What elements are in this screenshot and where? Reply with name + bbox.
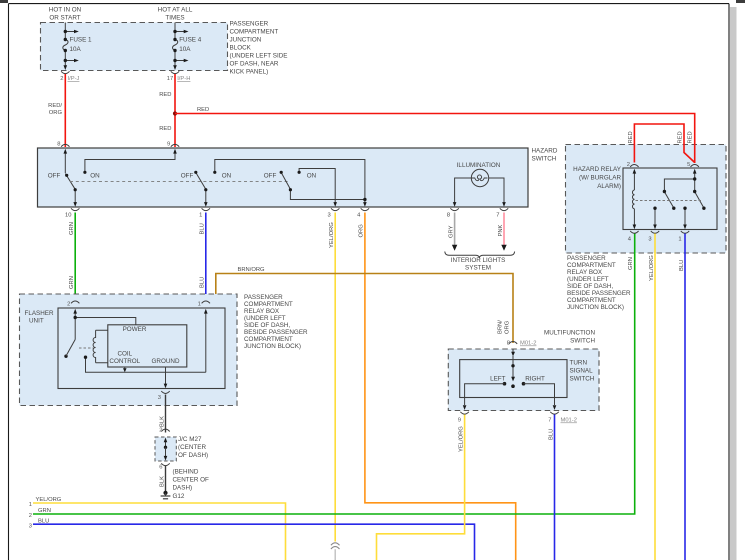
wire RED drop into relay pin5 xyxy=(694,144,696,163)
flasher unit outer dashed box xyxy=(20,294,238,406)
svg-text:8: 8 xyxy=(57,142,60,148)
svg-text:(UNDER LEFT SIDE: (UNDER LEFT SIDE xyxy=(230,53,288,60)
wire ORG hazard pin4 down right and to bottom xyxy=(365,213,516,560)
svg-text:SIGNAL: SIGNAL xyxy=(570,368,594,375)
svg-text:CENTER OF: CENTER OF xyxy=(173,477,210,484)
svg-text:BLK: BLK xyxy=(159,476,165,487)
relay contact wiring from pin 5 xyxy=(655,174,704,226)
multifunction switch: connector pin 8 M01-2 xyxy=(509,342,517,344)
svg-text:JUNCTION: JUNCTION xyxy=(230,37,262,44)
svg-text:BLU: BLU xyxy=(38,518,49,524)
svg-text:2: 2 xyxy=(67,302,70,308)
svg-text:(BEHIND: (BEHIND xyxy=(173,469,199,476)
svg-text:(W/ BURGLAR: (W/ BURGLAR xyxy=(579,175,621,182)
svg-text:OFF: OFF xyxy=(181,173,194,180)
svg-text:PASSENGER: PASSENGER xyxy=(230,21,269,28)
wire YEL/ORG relay pin3 down xyxy=(654,234,656,560)
svg-text:POWER: POWER xyxy=(123,326,147,333)
multifunction switch outer dashed box xyxy=(448,349,599,411)
svg-text:COIL: COIL xyxy=(117,351,132,358)
svg-text:OF DASH): OF DASH) xyxy=(178,452,208,459)
ground wire to pin 3 xyxy=(165,367,167,385)
svg-text:OR START: OR START xyxy=(49,15,80,22)
svg-text:RELAY BOX: RELAY BOX xyxy=(244,308,280,315)
svg-text:(UNDER LEFT: (UNDER LEFT xyxy=(567,276,609,283)
svg-text:HOT AT ALL: HOT AT ALL xyxy=(158,7,193,14)
wire BLU relay pin1 down xyxy=(684,234,686,560)
svg-text:BLU: BLU xyxy=(548,429,554,440)
svg-text:BESIDE PASSENGER: BESIDE PASSENGER xyxy=(567,290,631,297)
svg-text:MULTIFUNCTION: MULTIFUNCTION xyxy=(544,330,595,337)
svg-text:SWITCH: SWITCH xyxy=(532,156,557,163)
connector pin 9 (hazard top) xyxy=(171,144,179,146)
svg-text:PASSENGER: PASSENGER xyxy=(567,255,606,262)
svg-text:GRN: GRN xyxy=(69,276,75,289)
flasher coil xyxy=(93,330,108,362)
connector pin 9 (mf bottom) xyxy=(460,412,468,414)
hazard bottom connector ticks pins 10,1,3,4,8,7 xyxy=(71,208,508,210)
connector pin 1 (flasher top) xyxy=(202,301,210,303)
wire YEL/ORG mf pin9 down xyxy=(377,415,465,560)
svg-text:SWITCH: SWITCH xyxy=(570,376,595,383)
fuse box text label xyxy=(230,21,288,76)
svg-text:PASSENGER: PASSENGER xyxy=(244,294,283,301)
svg-text:BLU: BLU xyxy=(679,260,685,271)
svg-text:ON: ON xyxy=(307,173,317,180)
turn signal switch inner box xyxy=(460,360,567,398)
connector pin 7 M01-2 (mf bottom) xyxy=(550,412,558,414)
svg-text:J/C M27: J/C M27 xyxy=(178,436,202,443)
svg-text:DASH): DASH) xyxy=(173,485,193,492)
svg-text:1: 1 xyxy=(198,302,201,308)
svg-text:2: 2 xyxy=(60,76,63,82)
svg-text:FUSE 1: FUSE 1 xyxy=(70,37,93,44)
svg-text:3: 3 xyxy=(327,213,330,219)
svg-text:9: 9 xyxy=(167,142,170,148)
svg-text:SIDE OF DASH,: SIDE OF DASH, xyxy=(567,283,613,290)
svg-text:COMPARTMENT: COMPARTMENT xyxy=(244,336,293,343)
svg-text:RED: RED xyxy=(159,92,171,98)
svg-text:JUNCTION BLOCK): JUNCTION BLOCK) xyxy=(567,304,624,311)
svg-text:3: 3 xyxy=(29,523,32,529)
wire GRN into relay pin4 xyxy=(634,234,636,255)
connector pin 17 I/P-H xyxy=(171,71,179,73)
svg-text:RED: RED xyxy=(159,126,171,132)
svg-text:TIMES: TIMES xyxy=(165,15,184,22)
svg-text:M01-2: M01-2 xyxy=(520,341,536,347)
svg-text:FUSE 4: FUSE 4 xyxy=(179,37,202,44)
connector pin 5 (relay top) xyxy=(691,165,699,167)
svg-text:KICK PANEL): KICK PANEL) xyxy=(230,69,269,76)
svg-text:GRN: GRN xyxy=(628,257,634,270)
connector pins 4,3,1 (relay bottom) xyxy=(630,231,689,233)
svg-text:JUNCTION BLOCK): JUNCTION BLOCK) xyxy=(244,343,301,350)
svg-text:YEL/ORG: YEL/ORG xyxy=(649,255,655,281)
fuse F4 10A xyxy=(173,23,185,66)
svg-text:2: 2 xyxy=(627,162,630,168)
offpage chevron connector xyxy=(331,543,340,549)
svg-text:BLU: BLU xyxy=(200,223,206,234)
connector pin 6 (J/C bottom) xyxy=(161,463,169,465)
interior lights system brace xyxy=(445,252,515,258)
wire BLK flasher pin3 to J/C M27 xyxy=(165,395,167,433)
svg-text:COMPARTMENT: COMPARTMENT xyxy=(567,262,616,269)
svg-text:SIDE OF DASH,: SIDE OF DASH, xyxy=(244,322,290,329)
svg-text:SYSTEM: SYSTEM xyxy=(465,265,491,272)
connector pin 8 (hazard top) xyxy=(61,144,69,146)
svg-text:HAZARD RELAY: HAZARD RELAY xyxy=(573,166,622,173)
svg-text:8: 8 xyxy=(447,213,450,219)
wire BLU mf pin7 down xyxy=(554,415,556,560)
flasher POWER / COIL CONTROL / GROUND box xyxy=(108,325,187,367)
svg-text:RED: RED xyxy=(678,131,684,143)
junction connector J/C M27 dashed box xyxy=(155,437,176,461)
passenger compartment junction block (dashed fuse box) xyxy=(41,23,228,71)
svg-text:ILLUMINATION: ILLUMINATION xyxy=(457,162,501,169)
wire RED fuse4 down xyxy=(174,74,176,147)
flasher mechanical dashed link xyxy=(79,347,94,349)
svg-text:ON: ON xyxy=(222,173,232,180)
wire BLU hazard pin1 to flasher pin1 xyxy=(205,213,207,304)
svg-text:BLOCK: BLOCK xyxy=(230,45,252,52)
svg-text:8: 8 xyxy=(507,341,510,347)
connector pin 2 (J/C top) xyxy=(161,429,169,431)
svg-text:TURN: TURN xyxy=(570,360,588,367)
wire GRY hazard pin8 xyxy=(454,213,456,246)
svg-text:FLASHER: FLASHER xyxy=(25,310,54,317)
wire RED loop relay pin2 to pin5 xyxy=(634,124,694,163)
junction node red xyxy=(173,111,177,115)
svg-text:1: 1 xyxy=(678,237,681,243)
wire RED horizontal to hazard relay xyxy=(175,114,695,163)
svg-text:3: 3 xyxy=(158,395,161,401)
ground G12 xyxy=(163,491,167,495)
hazard relay outer dashed box xyxy=(566,145,727,254)
svg-text:ORG: ORG xyxy=(49,110,63,116)
wire PNK hazard pin7 xyxy=(503,213,505,246)
svg-text:ALARM): ALARM) xyxy=(597,183,621,190)
svg-text:RED: RED xyxy=(628,131,634,143)
svg-text:BLK: BLK xyxy=(159,416,165,427)
wire RED/ORG fuse1 to hazard pin 8 xyxy=(64,74,66,147)
svg-text:CONTROL: CONTROL xyxy=(109,358,140,365)
corner screenshot marks xyxy=(0,0,8,3)
relay mechanical dashed link xyxy=(636,200,704,202)
svg-text:RED/: RED/ xyxy=(48,103,62,109)
svg-text:ORG: ORG xyxy=(359,224,365,238)
hazard switch box xyxy=(38,148,529,207)
relay text passenger compartment relay box xyxy=(567,255,631,311)
wire BLK to ground xyxy=(165,466,167,491)
svg-text:2: 2 xyxy=(159,428,162,434)
svg-text:1: 1 xyxy=(199,213,202,219)
svg-text:COMPARTMENT: COMPARTMENT xyxy=(244,301,293,308)
svg-text:5: 5 xyxy=(687,162,690,168)
svg-text:10A: 10A xyxy=(70,46,82,53)
svg-text:6: 6 xyxy=(159,465,162,471)
svg-text:SWITCH: SWITCH xyxy=(570,338,595,345)
svg-text:RED: RED xyxy=(197,107,209,113)
wire GRN hazard pin10 to flasher pin2 xyxy=(74,213,76,304)
switch S3 (hazard) xyxy=(281,169,365,204)
node J/C M27 xyxy=(164,446,167,449)
svg-text:7: 7 xyxy=(548,418,551,424)
flasher internal wiring xyxy=(75,314,206,373)
svg-text:G12: G12 xyxy=(173,493,185,500)
svg-text:10A: 10A xyxy=(179,46,191,53)
fuse F1 10A xyxy=(63,23,75,66)
wire BRN/ORG flasher pin1 to multifunction pin 8 xyxy=(207,274,513,344)
svg-text:GRY: GRY xyxy=(448,225,454,238)
svg-text:COMPARTMENT: COMPARTMENT xyxy=(230,29,279,36)
svg-text:(CENTER: (CENTER xyxy=(178,444,206,451)
svg-text:PNK: PNK xyxy=(498,224,504,236)
svg-text:OFF: OFF xyxy=(264,173,277,180)
svg-text:BESIDE PASSENGER: BESIDE PASSENGER xyxy=(244,329,308,336)
flasher switch blade xyxy=(66,340,75,357)
svg-text:17: 17 xyxy=(167,76,173,82)
svg-text:9: 9 xyxy=(458,418,461,424)
connector pin 2 (flasher top) xyxy=(71,301,79,303)
svg-text:LEFT: LEFT xyxy=(490,376,506,383)
svg-text:HAZARD: HAZARD xyxy=(532,148,558,155)
svg-text:BLU: BLU xyxy=(200,277,206,288)
turn signal common wire xyxy=(512,349,514,353)
svg-text:YEL/ORG: YEL/ORG xyxy=(36,497,62,503)
switch S1 (hazard) xyxy=(65,154,175,204)
svg-text:OFF: OFF xyxy=(48,173,61,180)
svg-text:I/P-H: I/P-H xyxy=(177,76,190,82)
svg-text:ON: ON xyxy=(90,173,100,180)
svg-text:I/P-J: I/P-J xyxy=(68,76,80,82)
mechanical link dashed (hazard) xyxy=(70,181,288,183)
svg-text:GRN: GRN xyxy=(69,222,75,235)
connector pin 2 I/P-J xyxy=(61,71,69,73)
svg-text:1: 1 xyxy=(29,502,32,508)
svg-text:RIGHT: RIGHT xyxy=(525,376,545,383)
svg-text:3: 3 xyxy=(648,237,651,243)
flasher relay box text xyxy=(244,294,308,350)
svg-text:YEL/ORG: YEL/ORG xyxy=(458,426,464,452)
relay coil xyxy=(633,174,635,191)
svg-text:GROUND: GROUND xyxy=(152,358,180,365)
svg-text:HOT IN ON: HOT IN ON xyxy=(49,7,82,14)
svg-text:10: 10 xyxy=(65,213,71,219)
svg-text:2: 2 xyxy=(29,513,32,519)
svg-text:GRN: GRN xyxy=(38,508,51,514)
svg-text:BRN/ORG: BRN/ORG xyxy=(237,267,265,273)
svg-text:(UNDER LEFT: (UNDER LEFT xyxy=(244,315,286,322)
svg-text:UNIT: UNIT xyxy=(29,318,44,325)
connector pin 3 (flasher bottom) xyxy=(161,391,169,393)
svg-text:ORG: ORG xyxy=(505,320,511,334)
coil control arrow to wire xyxy=(124,367,126,369)
svg-text:YEL/ORG: YEL/ORG xyxy=(329,222,335,248)
relay inner box xyxy=(623,168,717,230)
svg-text:BRN/: BRN/ xyxy=(498,320,504,334)
svg-text:7: 7 xyxy=(496,213,499,219)
wire YEL/ORG hazard pin3 down xyxy=(334,213,336,542)
svg-text:OF DASH, NEAR: OF DASH, NEAR xyxy=(230,61,279,68)
svg-text:M01-2: M01-2 xyxy=(561,418,577,424)
page shadow right xyxy=(730,7,737,560)
flasher unit inner box xyxy=(58,308,225,389)
svg-text:RELAY BOX: RELAY BOX xyxy=(567,269,603,276)
switch S2 (hazard) xyxy=(196,160,365,204)
svg-text:COMPARTMENT: COMPARTMENT xyxy=(567,297,616,304)
svg-text:RED: RED xyxy=(687,131,693,143)
connector pin 2 (relay top) xyxy=(630,165,638,167)
svg-text:INTERIOR LIGHTS: INTERIOR LIGHTS xyxy=(451,257,506,264)
